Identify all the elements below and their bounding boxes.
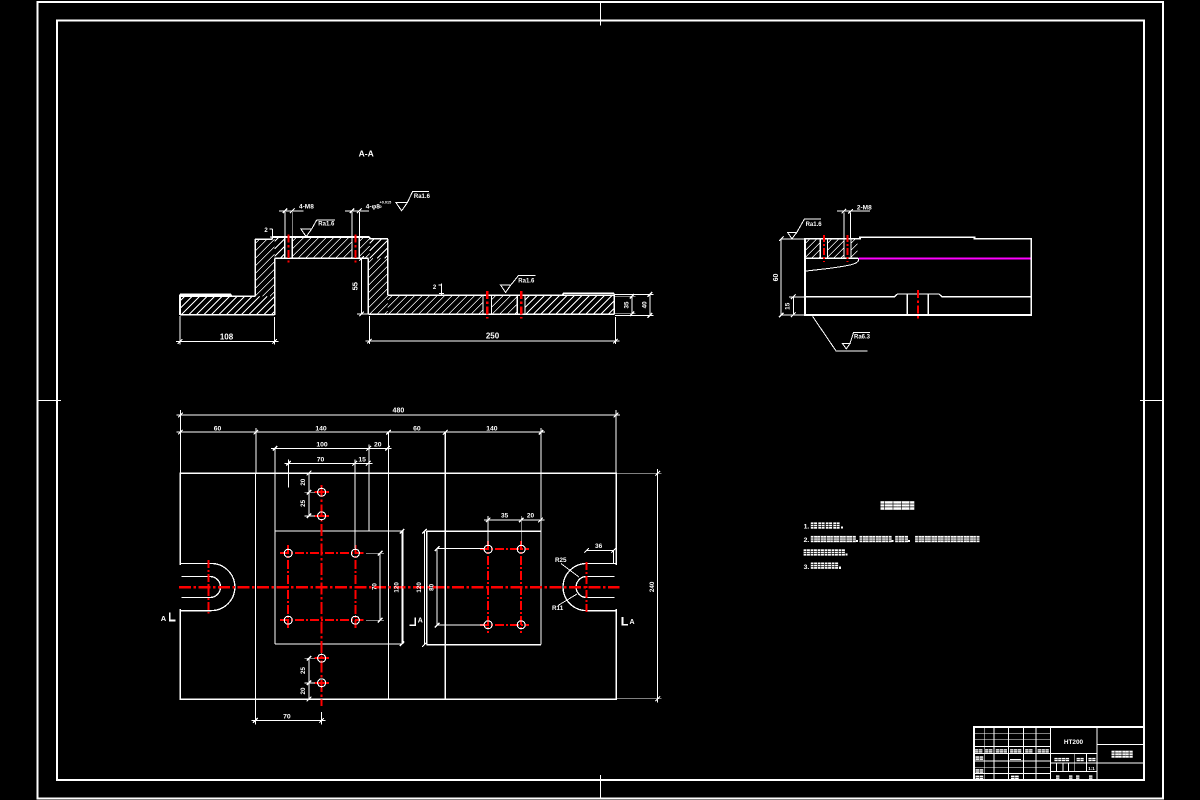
svg-text:70: 70 bbox=[372, 583, 379, 590]
svg-text:60: 60 bbox=[773, 274, 780, 282]
svg-text:140: 140 bbox=[486, 425, 498, 432]
svg-text:108: 108 bbox=[220, 333, 234, 342]
svg-text:R11: R11 bbox=[552, 605, 564, 612]
svg-text:2-M8: 2-M8 bbox=[857, 205, 872, 212]
svg-text:15: 15 bbox=[358, 456, 366, 463]
svg-text:1.: 1. bbox=[804, 524, 810, 531]
svg-text:70: 70 bbox=[317, 456, 325, 463]
svg-text:20: 20 bbox=[374, 441, 382, 448]
svg-text:A: A bbox=[161, 614, 167, 623]
svg-text:HT200: HT200 bbox=[1064, 739, 1084, 746]
svg-text:Ra6.3: Ra6.3 bbox=[854, 335, 871, 341]
svg-text:4-M8: 4-M8 bbox=[299, 204, 314, 211]
svg-text:20: 20 bbox=[300, 478, 307, 485]
svg-text:240: 240 bbox=[649, 581, 656, 592]
svg-text:120: 120 bbox=[416, 582, 423, 593]
svg-text:36: 36 bbox=[595, 543, 603, 550]
svg-text:20: 20 bbox=[527, 513, 535, 520]
svg-text:100: 100 bbox=[316, 441, 328, 448]
svg-text:0: 0 bbox=[380, 205, 382, 209]
svg-text:25: 25 bbox=[300, 667, 307, 674]
svg-text:15: 15 bbox=[785, 302, 792, 310]
svg-text:3.: 3. bbox=[804, 564, 810, 571]
svg-text:60: 60 bbox=[413, 425, 421, 432]
svg-text:70: 70 bbox=[283, 714, 291, 721]
svg-text:A-A: A-A bbox=[359, 148, 374, 158]
svg-text:35: 35 bbox=[623, 301, 630, 308]
svg-text:1:1: 1:1 bbox=[1088, 766, 1095, 771]
svg-text:Ra1.6: Ra1.6 bbox=[318, 222, 335, 228]
svg-text:Ra1.6: Ra1.6 bbox=[806, 222, 823, 228]
svg-text:Ra1.6: Ra1.6 bbox=[414, 194, 431, 200]
svg-text:20: 20 bbox=[300, 687, 307, 694]
svg-text:R25: R25 bbox=[555, 557, 567, 564]
svg-text:250: 250 bbox=[486, 332, 500, 341]
svg-text:60: 60 bbox=[214, 425, 222, 432]
svg-text:55: 55 bbox=[351, 282, 360, 290]
svg-text:2.: 2. bbox=[804, 537, 810, 544]
svg-text:A: A bbox=[629, 619, 634, 626]
svg-text:480: 480 bbox=[393, 408, 405, 415]
svg-text:25: 25 bbox=[300, 499, 307, 506]
svg-text:80: 80 bbox=[429, 583, 436, 590]
svg-text:4-φ8: 4-φ8 bbox=[366, 203, 380, 210]
svg-text:A: A bbox=[418, 617, 423, 624]
svg-text:40: 40 bbox=[641, 301, 648, 308]
svg-text:35: 35 bbox=[501, 513, 509, 520]
svg-text:140: 140 bbox=[315, 425, 327, 432]
svg-text:Ra1.6: Ra1.6 bbox=[518, 278, 535, 284]
svg-text:120: 120 bbox=[394, 582, 401, 593]
